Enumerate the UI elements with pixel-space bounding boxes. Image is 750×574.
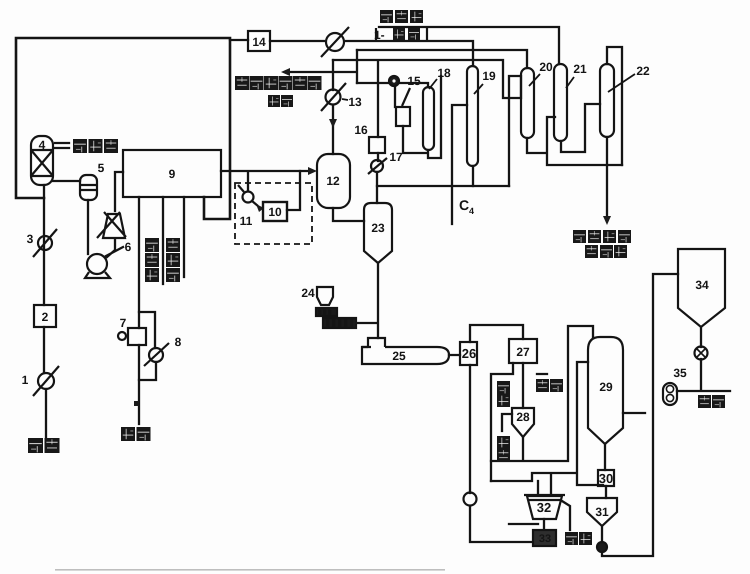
svg-text:21: 21: [573, 62, 587, 76]
svg-text:9: 9: [169, 167, 176, 181]
svg-text:12: 12: [326, 174, 340, 188]
svg-text:15: 15: [407, 74, 421, 88]
svg-text:6: 6: [125, 240, 132, 254]
svg-text:25: 25: [392, 349, 406, 363]
svg-text:18: 18: [437, 66, 451, 80]
svg-text:14: 14: [252, 35, 266, 49]
svg-text:17: 17: [389, 150, 403, 164]
svg-text:29: 29: [599, 380, 613, 394]
svg-text:13: 13: [348, 95, 362, 109]
svg-text:35: 35: [673, 366, 687, 380]
svg-text:4: 4: [469, 206, 474, 216]
svg-text:11: 11: [240, 214, 253, 228]
svg-text:16: 16: [354, 123, 368, 137]
svg-text:23: 23: [371, 221, 385, 235]
svg-text:1: 1: [22, 373, 29, 387]
svg-text:32: 32: [537, 500, 551, 515]
svg-text:5: 5: [98, 161, 105, 175]
svg-text:20: 20: [539, 60, 553, 74]
svg-text:7: 7: [120, 316, 127, 330]
svg-text:31: 31: [595, 505, 609, 519]
svg-text:10: 10: [268, 205, 282, 219]
svg-text:34: 34: [695, 278, 709, 292]
svg-text:8: 8: [175, 335, 182, 349]
svg-text:24: 24: [301, 286, 315, 300]
svg-text:19: 19: [482, 69, 496, 83]
svg-text:C: C: [459, 197, 469, 213]
svg-text:30: 30: [599, 471, 613, 486]
svg-text:4: 4: [39, 138, 46, 152]
svg-text:26: 26: [462, 346, 476, 361]
svg-text:2: 2: [42, 310, 49, 324]
svg-text:27: 27: [516, 345, 530, 359]
svg-text:3: 3: [27, 232, 34, 246]
svg-text:22: 22: [636, 64, 650, 78]
svg-text:28: 28: [516, 410, 530, 424]
svg-text:33: 33: [539, 533, 551, 545]
svg-text:1-: 1-: [374, 28, 385, 42]
